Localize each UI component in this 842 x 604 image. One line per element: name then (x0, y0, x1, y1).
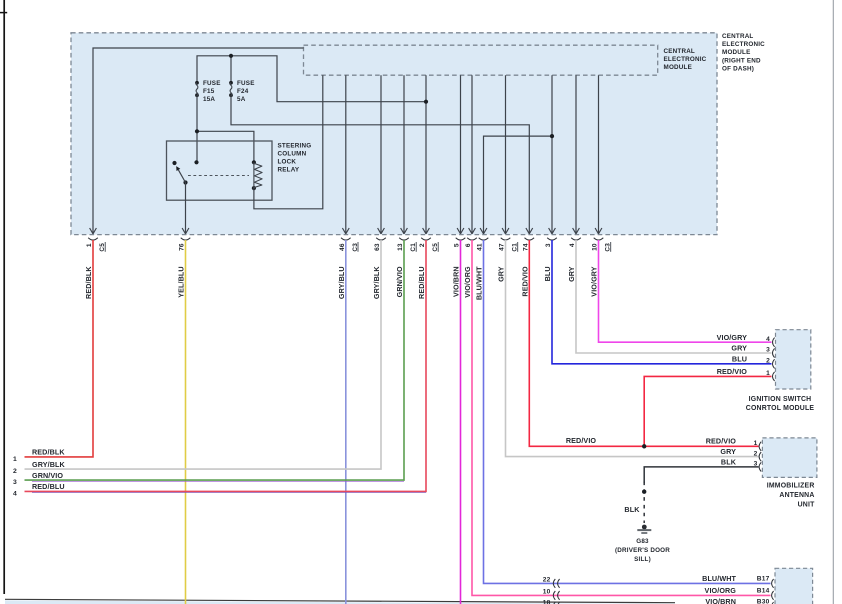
svg-text:F24: F24 (237, 88, 249, 95)
wire RED/VIO branch up to ignition switch pin1 (644, 376, 771, 446)
svg-text:1: 1 (86, 243, 93, 247)
wire BLU (pin3 to ignition switch pin2) (552, 240, 772, 364)
wire VIO/GRY (pin10 to ignition switch pin4) (599, 240, 772, 342)
svg-text:RED/VIO: RED/VIO (566, 436, 597, 445)
svg-text:3: 3 (13, 479, 17, 486)
svg-text:46: 46 (339, 243, 346, 251)
wire BLU/WHT (pin41 to bottom row B17) (484, 240, 771, 583)
wire: coil return loop back to inner box (254, 75, 323, 209)
connector exit pin 74 (RED/VIO) (521, 228, 535, 297)
svg-text:5A: 5A (237, 96, 246, 103)
connector exit pin 3 (BLU) (543, 228, 557, 281)
wire GRN/VIO (pin13 to left row 3) (25, 240, 405, 481)
svg-text:GRN/VIO: GRN/VIO (395, 266, 404, 297)
svg-text:GRY: GRY (497, 266, 506, 282)
connector exit pin 5 (VIO/BRN) (452, 228, 466, 297)
svg-text:CONRTOL MODULE: CONRTOL MODULE (746, 405, 815, 412)
svg-text:3: 3 (545, 243, 552, 247)
svg-text:CENTRAL: CENTRAL (664, 48, 695, 55)
wire GRY (pin47 to immobilizer pin2) (506, 240, 759, 457)
connector exit pin 41 (BLU/WHT) (475, 228, 489, 300)
svg-text:13: 13 (397, 243, 404, 251)
svg-text:15A: 15A (203, 96, 215, 103)
svg-text:B30: B30 (757, 599, 770, 604)
svg-text:RELAY: RELAY (278, 166, 300, 173)
svg-text:RED/VIO: RED/VIO (706, 437, 737, 446)
svg-text:(RIGHT END: (RIGHT END (722, 57, 761, 64)
wire: inner box drop at x=381 (380, 75, 382, 234)
wire: F24 output long horizontal to pin74 drop (231, 95, 529, 234)
svg-text:5: 5 (454, 243, 461, 247)
svg-text:VIO/ORG: VIO/ORG (705, 586, 737, 595)
ignition switch control module box (776, 330, 811, 389)
wire GRY/BLU (pin46 down off page) (345, 240, 347, 604)
wire GRY/BLK (pin63 to left row 2) (25, 240, 382, 469)
node: left connector pin 3 GRN/VIO (13, 471, 63, 486)
connector exit pin 76 (YEL/BLU) (177, 228, 191, 298)
svg-text:4: 4 (569, 243, 576, 247)
junction: RED/VIO splice (642, 444, 646, 448)
svg-text:6: 6 (465, 243, 472, 247)
node: bottom row 22 BLU/WHT B17 (543, 574, 774, 588)
svg-text:B17: B17 (757, 576, 770, 583)
wire RED/VIO (pin74 to immobilizer pin1) (529, 240, 758, 446)
svg-text:GRN/VIO: GRN/VIO (32, 471, 63, 480)
connector exit pin 63 (GRY/BLK) (372, 228, 386, 299)
wire RED/BLU (pin2 to left row 4) (25, 240, 427, 493)
svg-text:47: 47 (499, 243, 506, 251)
svg-text:(DRIVER'S DOOR: (DRIVER'S DOOR (615, 547, 670, 554)
relay coil (252, 160, 262, 190)
wire: branch to pin41 (484, 136, 553, 234)
svg-text:COLUMN: COLUMN (278, 150, 307, 157)
connector exit pin 10 (VIO/GRY) (590, 228, 612, 297)
junction: fuse rail node (229, 54, 233, 58)
svg-text:IGNITION SWITCH: IGNITION SWITCH (749, 396, 812, 403)
svg-text:VIO/BRN: VIO/BRN (705, 597, 736, 604)
svg-text:IMMOBILIZER: IMMOBILIZER (767, 483, 815, 490)
svg-text:2: 2 (766, 358, 770, 365)
svg-text:RED/BLU: RED/BLU (417, 266, 426, 299)
svg-text:CENTRAL: CENTRAL (722, 33, 753, 40)
node: bottom row 18 VIO/BRN B30 (543, 597, 774, 604)
central electronic module inner box (304, 45, 658, 75)
svg-text:RED/VIO: RED/VIO (521, 266, 530, 297)
steering column lock relay box (167, 141, 273, 200)
label: G83 (DRIVER'S DOOR SILL) (615, 538, 670, 563)
svg-text:STEERING: STEERING (278, 142, 312, 149)
wire: fuse supply rail (197, 56, 426, 102)
page top-left stub (0, 12, 7, 14)
wire VIO/ORG (pin6 to bottom row B14) (472, 240, 771, 595)
svg-text:1: 1 (13, 456, 17, 463)
wire BLK immobilizer pin3 to ground G83 (644, 467, 758, 523)
wire: inner box drop at x=552 (551, 75, 553, 234)
label: CENTRAL ELECTRONIC MODULE (RIGHT END OF DASH) (722, 33, 765, 73)
wire: inner box drop at x=426 (425, 75, 427, 234)
svg-text:74: 74 (522, 243, 529, 251)
svg-text:MODULE: MODULE (722, 49, 751, 56)
wire: inner box drop at x=598.5 (598, 75, 600, 234)
node: left connector pin 2 GRY/BLK (13, 460, 65, 475)
wire: inner box drop at x=345.8 (345, 75, 347, 234)
connector exit pin 46 (GRY/BLU) (337, 228, 359, 299)
svg-text:BLK: BLK (624, 505, 640, 514)
svg-text:GRY: GRY (720, 447, 736, 456)
connector exit pin 1 (RED/BLK) (84, 228, 106, 299)
svg-text:GRY/BLK: GRY/BLK (372, 266, 381, 299)
svg-text:BLK: BLK (721, 457, 737, 466)
svg-text:41: 41 (477, 243, 484, 251)
svg-text:2: 2 (13, 468, 17, 475)
svg-text:FUSE: FUSE (203, 80, 221, 87)
svg-text:UNIT: UNIT (798, 501, 815, 508)
svg-text:2: 2 (754, 450, 758, 457)
svg-text:4: 4 (13, 491, 17, 498)
wire VIO/BRN (pin5 down off page) (460, 240, 462, 604)
svg-text:22: 22 (543, 576, 551, 583)
svg-text:ANTENNA: ANTENNA (779, 492, 814, 499)
page right edge line (832, 0, 834, 604)
junction: F15 output node (195, 129, 199, 133)
page left border (3, 0, 5, 594)
svg-text:VIO/ORG: VIO/ORG (463, 266, 472, 298)
svg-text:RED/BLU: RED/BLU (32, 482, 65, 491)
fuse F24 (229, 81, 233, 97)
svg-text:MODULE: MODULE (664, 64, 693, 71)
svg-text:BLU: BLU (732, 354, 747, 363)
svg-text:ELECTRONIC: ELECTRONIC (722, 41, 765, 48)
wire: inner box drop at x=472 (471, 75, 473, 234)
svg-text:ELECTRONIC: ELECTRONIC (664, 56, 707, 63)
wire: inner box drop at x=576 (575, 75, 577, 234)
connector exit pin 13 (GRN/VIO) (395, 228, 417, 297)
wire: F15 output to relay switch and coil (197, 95, 254, 162)
wire: inner box drop at x=460.5 (460, 75, 462, 234)
wire YEL/BLU (pin76 down off page) (185, 240, 187, 604)
svg-text:63: 63 (374, 243, 381, 251)
svg-text:LOCK: LOCK (278, 158, 297, 165)
svg-text:1: 1 (754, 440, 758, 447)
label: STEERING COLUMN LOCK RELAY (278, 142, 312, 173)
node: ignition switch module pin 1 RED/VIO (717, 367, 775, 381)
connector exit pin 47 (GRY) (497, 228, 519, 282)
svg-text:G83: G83 (636, 538, 649, 545)
node: immobilizer pin 3 BLK (721, 457, 761, 471)
svg-text:GRY: GRY (567, 266, 576, 282)
svg-text:18: 18 (543, 600, 551, 604)
svg-text:VIO/GRY: VIO/GRY (590, 266, 599, 296)
svg-text:F15: F15 (203, 88, 215, 95)
svg-text:4: 4 (766, 336, 770, 343)
svg-text:B14: B14 (757, 588, 770, 595)
label: IGNITION SWITCH CONRTOL MODULE (746, 396, 815, 412)
svg-text:2: 2 (419, 243, 426, 247)
node: ignition switch module pin 4 VIO/GRY (717, 333, 775, 347)
ground G83 (637, 525, 651, 533)
svg-text:BLU: BLU (543, 266, 552, 281)
fuse F15 (195, 81, 199, 97)
label: IMMOBILIZER ANTENNA UNIT (767, 483, 815, 509)
central electronic module outer box (71, 33, 717, 235)
node: immobilizer pin 2 GRY (720, 447, 761, 461)
svg-text:OF DASH): OF DASH) (722, 66, 754, 73)
wire: inner box drop at x=505.5 (505, 75, 507, 234)
immobilizer antenna unit box (762, 438, 817, 478)
svg-text:RED/BLK: RED/BLK (32, 448, 65, 457)
node: left connector pin 4 RED/BLU (13, 482, 65, 497)
label: CENTRAL ELECTRONIC MODULE (inner) (664, 48, 707, 71)
wire: inner box drop at x=404 (403, 75, 405, 234)
svg-text:GRY/BLU: GRY/BLU (337, 266, 346, 299)
svg-text:1: 1 (766, 370, 770, 377)
svg-text:YEL/BLU: YEL/BLU (177, 266, 186, 297)
svg-text:SILL): SILL) (634, 556, 651, 563)
wire GRY (pin4 to ignition switch pin3) (576, 240, 772, 353)
relay switch (172, 160, 198, 184)
svg-text:FUSE: FUSE (237, 80, 255, 87)
svg-text:10: 10 (543, 588, 551, 595)
bottom connector box (775, 568, 813, 604)
node: ignition switch module pin 2 BLU (732, 354, 775, 368)
label: FUSE F24 5A (237, 80, 255, 103)
bottom page edge strip (5, 599, 675, 604)
svg-text:10: 10 (592, 243, 599, 251)
wire: relay switch output down to pin76 exit (185, 183, 187, 234)
svg-text:76: 76 (179, 243, 186, 251)
connector exit pin 2 (RED/BLU) (417, 228, 439, 299)
connector exit pin 6 (VIO/ORG) (463, 228, 477, 298)
connector exit pin 4 (GRY) (567, 228, 581, 282)
node: bottom row 10 VIO/ORG B14 (543, 586, 774, 600)
node: left connector pin 1 RED/BLK (13, 448, 65, 463)
node: immobilizer pin 1 RED/VIO (706, 437, 761, 451)
svg-text:RED/BLK: RED/BLK (84, 266, 93, 299)
svg-text:BLU/WHT: BLU/WHT (702, 574, 736, 583)
svg-text:BLU/WHT: BLU/WHT (475, 266, 484, 300)
junction: pin2 node (424, 100, 428, 104)
svg-text:3: 3 (766, 347, 770, 354)
junction: pin3 node (550, 134, 554, 138)
wire: pin1 feed, vertical + top horizontal into inner box (93, 48, 304, 234)
svg-text:VIO/BRN: VIO/BRN (452, 266, 461, 297)
node: ignition switch module pin 3 GRY (731, 344, 774, 358)
svg-text:GRY/BLK: GRY/BLK (32, 460, 65, 469)
wire RED/BLK (pin1 to left row 1) (25, 240, 94, 457)
junction: BLK splice (642, 490, 646, 494)
svg-text:RED/VIO: RED/VIO (717, 367, 748, 376)
relay mechanical link (dashed) (188, 175, 249, 177)
svg-text:VIO/GRY: VIO/GRY (717, 333, 747, 342)
label: FUSE F15 15A (203, 80, 221, 103)
svg-text:GRY: GRY (731, 344, 747, 353)
